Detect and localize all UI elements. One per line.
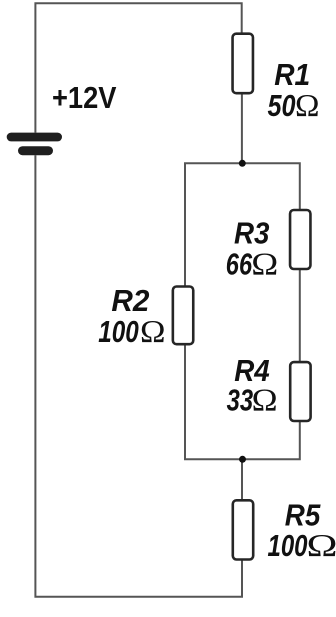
- node B junction dot: [239, 456, 246, 463]
- wire node B to R5: [241, 459, 243, 500]
- node A junction dot: [239, 160, 246, 167]
- svg-text:50: 50: [268, 89, 296, 123]
- svg-text:+12V: +12V: [52, 81, 117, 115]
- wire parallel top: [185, 163, 300, 286]
- wire parallel bottom: [185, 344, 300, 459]
- svg-text:100: 100: [98, 315, 139, 349]
- resistor R3 body: [290, 210, 310, 269]
- wire R3 to R4: [299, 269, 301, 362]
- svg-text:Ω: Ω: [252, 383, 278, 418]
- svg-text:33: 33: [227, 384, 254, 418]
- resistor R5 body: [233, 500, 253, 559]
- svg-text:R2: R2: [111, 284, 149, 318]
- battery V1 positive plate: [7, 133, 62, 142]
- resistor R4 body: [290, 362, 310, 421]
- svg-text:Ω: Ω: [307, 528, 336, 563]
- svg-text:Ω: Ω: [251, 246, 278, 281]
- svg-text:Ω: Ω: [295, 88, 320, 123]
- wire left rail lower: [35, 155, 242, 597]
- wire R1 to node A: [241, 93, 243, 163]
- svg-text:66: 66: [226, 247, 253, 281]
- resistor R2 body: [173, 287, 193, 345]
- battery V1 negative plate: [18, 146, 53, 155]
- svg-text:Ω: Ω: [140, 314, 166, 349]
- resistor R1 body: [233, 34, 253, 93]
- svg-text:100: 100: [268, 529, 308, 563]
- wire top rail: [35, 3, 241, 132]
- svg-text:R3: R3: [234, 216, 270, 250]
